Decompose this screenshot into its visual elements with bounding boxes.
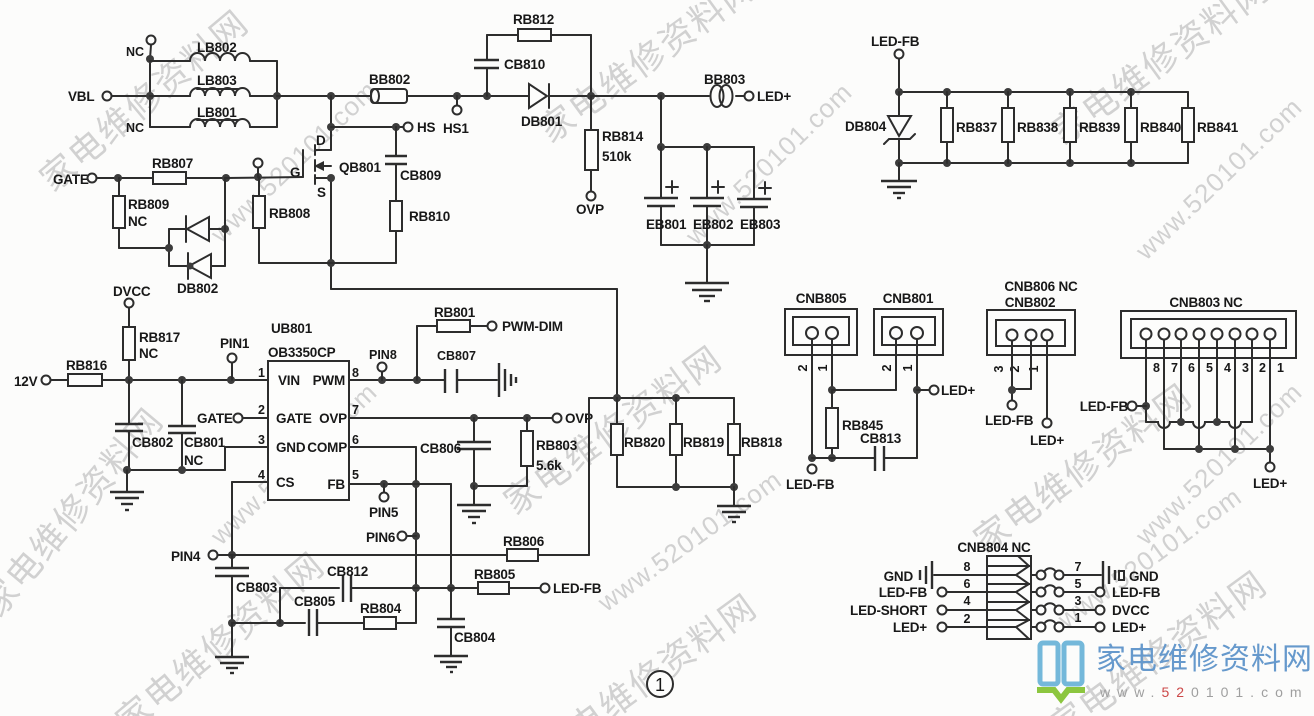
svg-text:S: S <box>317 185 326 200</box>
svg-text:8: 8 <box>1153 361 1160 375</box>
svg-text:NC: NC <box>126 121 144 135</box>
svg-text:CB801: CB801 <box>184 435 226 450</box>
svg-text:PIN6: PIN6 <box>366 530 396 545</box>
svg-text:LED-FB: LED-FB <box>553 581 602 596</box>
resistor RB814 510k <box>585 96 644 192</box>
wire CNB803 even pins <box>1181 340 1252 422</box>
testpoint PIN6 <box>366 530 416 545</box>
svg-text:5: 5 <box>1075 577 1082 591</box>
svg-text:CB802: CB802 <box>132 435 173 450</box>
svg-text:2: 2 <box>258 403 265 417</box>
svg-text:LED+: LED+ <box>1112 620 1146 635</box>
svg-text:CNB804 NC: CNB804 NC <box>957 540 1031 555</box>
svg-text:FB: FB <box>327 477 345 492</box>
resistor RB820 <box>589 394 734 487</box>
resistor RB841 <box>1182 92 1239 163</box>
inductor LB801 <box>150 105 277 127</box>
svg-text:RB814: RB814 <box>602 129 644 144</box>
svg-text:RB807: RB807 <box>152 156 193 171</box>
svg-text:CB810: CB810 <box>504 57 545 72</box>
capacitor CB802 <box>115 380 173 470</box>
terminal DVCC <box>113 284 151 327</box>
svg-text:3: 3 <box>258 433 265 447</box>
svg-text:www.520101.com: www.520101.com <box>1099 684 1309 700</box>
svg-text:5: 5 <box>1206 361 1213 375</box>
inductor LB803 <box>150 73 277 96</box>
svg-text:3: 3 <box>1075 594 1082 608</box>
terminal 12V <box>14 374 68 389</box>
testpoint PIN1 <box>220 336 250 380</box>
svg-text:RB820: RB820 <box>624 435 665 450</box>
IC UB801 OB3350CP <box>258 321 359 500</box>
svg-text:3: 3 <box>992 365 1006 372</box>
wire CS pin4 <box>228 482 268 559</box>
svg-text:CNB802: CNB802 <box>1005 295 1056 310</box>
terminal LED-SHORT row4 <box>850 594 987 618</box>
svg-text:OVP: OVP <box>319 411 347 426</box>
svg-text:PIN5: PIN5 <box>369 505 399 520</box>
svg-text:COMP: COMP <box>307 440 347 455</box>
svg-text:CB807: CB807 <box>437 349 476 363</box>
wire BB802 to DB801 <box>407 92 529 100</box>
svg-text:5.6k: 5.6k <box>536 458 562 473</box>
terminal GATE pin2 <box>197 411 268 426</box>
svg-text:CNB803 NC: CNB803 NC <box>1169 295 1243 310</box>
svg-text:6: 6 <box>352 433 359 447</box>
capacitor CB806 <box>420 418 491 486</box>
svg-text:RB806: RB806 <box>503 534 545 549</box>
wire main to BB802 <box>277 92 371 100</box>
connector CNB804 <box>957 540 1031 639</box>
resistor RB801 <box>417 305 488 380</box>
svg-text:RB812: RB812 <box>513 12 554 27</box>
wire CNB803 rail2 <box>1164 445 1274 453</box>
svg-text:RB804: RB804 <box>360 601 402 616</box>
svg-text:GND: GND <box>276 440 306 455</box>
ground G1 <box>110 470 144 510</box>
svg-text:1: 1 <box>1075 611 1082 625</box>
terminal LED+ row2 <box>893 612 987 635</box>
wire CNB805 to CNB801 <box>832 389 896 391</box>
svg-text:QB801: QB801 <box>339 160 381 175</box>
svg-text:CB812: CB812 <box>327 564 368 579</box>
bead BB803 <box>704 72 746 107</box>
svg-text:VIN: VIN <box>278 373 300 388</box>
wire gate to mosfet <box>226 173 303 181</box>
svg-text:HS: HS <box>417 120 436 135</box>
resistor RB819 <box>670 398 724 487</box>
testpoint gate <box>254 159 263 178</box>
wire CNB803 pin8 <box>1142 340 1150 422</box>
wire LED string top rail <box>895 88 1188 96</box>
ground G5 <box>717 487 751 522</box>
svg-text:2: 2 <box>1259 361 1266 375</box>
svg-text:RB817: RB817 <box>139 330 180 345</box>
svg-text:6: 6 <box>964 577 971 591</box>
svg-text:LED+: LED+ <box>1030 433 1064 448</box>
ground rotated CB807 <box>499 363 516 397</box>
label NC lower <box>126 121 144 135</box>
svg-text:LED-FB: LED-FB <box>985 413 1034 428</box>
svg-text:LED-FB: LED-FB <box>879 585 928 600</box>
svg-text:EB803: EB803 <box>740 217 781 232</box>
terminal LED+ conn2 <box>1030 341 1064 448</box>
svg-text:CB803: CB803 <box>236 580 278 595</box>
capacitor CB809 <box>385 127 441 201</box>
svg-text:4: 4 <box>964 594 971 608</box>
svg-text:RB819: RB819 <box>683 435 724 450</box>
connector CNB803 <box>1121 295 1296 375</box>
svg-text:NC: NC <box>139 346 159 361</box>
svg-text:5: 5 <box>352 468 359 482</box>
wire PWM pin8 <box>349 376 445 384</box>
svg-text:RB841: RB841 <box>1197 120 1239 135</box>
wire 12V rail <box>102 376 268 384</box>
capacitor CB801 <box>168 380 226 470</box>
svg-text:7: 7 <box>1171 361 1178 375</box>
ground G4 <box>457 486 491 523</box>
svg-text:CNB805: CNB805 <box>796 291 847 306</box>
capacitor EB802 <box>690 147 733 245</box>
terminal LED-FB right <box>871 34 920 92</box>
svg-text:RB838: RB838 <box>1017 120 1059 135</box>
svg-text:LED+: LED+ <box>941 383 975 398</box>
svg-text:1: 1 <box>816 364 830 371</box>
resistor RB838 <box>1002 92 1059 163</box>
resistor RB810 <box>390 201 450 263</box>
resistor RB803 5.6k <box>470 418 578 490</box>
svg-text:2: 2 <box>1008 365 1022 372</box>
svg-text:CNB806 NC: CNB806 NC <box>1004 279 1078 294</box>
terminal LED+ conn1 <box>917 383 975 398</box>
terminal LED+ conn3 <box>1253 463 1287 492</box>
svg-text:RB809: RB809 <box>128 197 169 212</box>
svg-text:CNB801: CNB801 <box>883 291 934 306</box>
svg-text:家电维修资料网: 家电维修资料网 <box>1096 643 1313 676</box>
diode DB804 <box>845 92 915 163</box>
svg-text:CB804: CB804 <box>454 630 496 645</box>
resistor RB808 <box>253 177 331 263</box>
testpoint PIN4 <box>171 549 232 564</box>
resistor RB817 <box>123 327 180 380</box>
testpoint PIN5 <box>369 484 399 520</box>
svg-text:1: 1 <box>1027 365 1041 372</box>
contact pair row7 <box>1031 560 1101 580</box>
ground G3 <box>434 656 468 672</box>
terminal NC top <box>126 36 156 60</box>
resistor RB840 <box>1125 92 1181 163</box>
contact pair row5 <box>1031 577 1161 600</box>
logo book icon <box>1037 643 1085 699</box>
resistor RB812 <box>487 12 591 96</box>
wire sense bottom rail <box>617 483 738 491</box>
svg-text:PIN1: PIN1 <box>220 336 250 351</box>
svg-text:BB802: BB802 <box>369 72 410 87</box>
svg-text:510k: 510k <box>602 149 632 164</box>
svg-text:LED+: LED+ <box>757 89 791 104</box>
svg-text:GATE: GATE <box>53 172 89 187</box>
capacitor EB801 <box>644 96 754 245</box>
svg-text:LED-FB: LED-FB <box>871 34 920 49</box>
diode DB802 <box>165 178 229 296</box>
terminal OVP mid <box>553 411 594 426</box>
capacitor CB807 <box>437 349 497 393</box>
svg-text:DB804: DB804 <box>845 119 887 134</box>
svg-text:LED+: LED+ <box>893 620 927 635</box>
svg-text:PWM: PWM <box>313 373 345 388</box>
svg-text:1: 1 <box>1277 361 1284 375</box>
svg-text:LB803: LB803 <box>197 73 237 88</box>
svg-text:GND: GND <box>1129 569 1159 584</box>
svg-text:OVP: OVP <box>576 202 604 217</box>
resistor RB804 <box>360 601 416 629</box>
svg-text:LED+: LED+ <box>1253 476 1287 491</box>
svg-text:DB802: DB802 <box>177 281 218 296</box>
svg-text:CB809: CB809 <box>400 168 441 183</box>
resistor RB816 <box>66 358 108 386</box>
svg-text:1: 1 <box>901 364 915 371</box>
svg-text:2: 2 <box>964 612 971 626</box>
resistor RB845 <box>826 390 884 462</box>
terminal LED-FB conn3 <box>1080 399 1146 414</box>
resistor RB806 <box>503 398 589 561</box>
terminal LED-FB row6 <box>879 577 987 600</box>
svg-text:PWM-DIM: PWM-DIM <box>502 319 563 334</box>
wire OVP pin7 <box>349 414 553 422</box>
svg-text:NC: NC <box>184 453 204 468</box>
capacitor EB803 <box>737 147 781 245</box>
svg-text:D: D <box>316 133 326 148</box>
svg-text:RB816: RB816 <box>66 358 108 373</box>
svg-text:4: 4 <box>258 468 265 482</box>
ground GND right CNB804 <box>1103 561 1159 589</box>
svg-text:CB813: CB813 <box>860 431 902 446</box>
wire COMP pin6 <box>349 447 420 623</box>
svg-text:6: 6 <box>1188 361 1195 375</box>
ground G2 <box>215 623 249 673</box>
resistor RB807 <box>152 156 230 184</box>
capacitor CB803 <box>215 555 278 627</box>
transistor QB801 <box>290 133 381 200</box>
terminal OVP top <box>576 192 604 218</box>
wire FB pin5 <box>349 480 455 592</box>
svg-text:VBL: VBL <box>68 89 94 104</box>
svg-text:EB802: EB802 <box>693 217 733 232</box>
terminal PWM-DIM <box>488 319 563 334</box>
svg-text:PIN8: PIN8 <box>369 348 397 362</box>
svg-text:DVCC: DVCC <box>113 284 151 299</box>
wire LED-FB bottom rail <box>808 454 875 462</box>
capacitor CB805 <box>232 594 364 636</box>
wire CNB803 rail1 hops <box>1146 418 1252 428</box>
svg-text:RB803: RB803 <box>536 438 578 453</box>
svg-text:RB808: RB808 <box>269 206 311 221</box>
testpoint HS1 <box>443 96 469 136</box>
ground G7 <box>881 163 917 198</box>
svg-text:8: 8 <box>352 366 359 380</box>
svg-text:UB801: UB801 <box>271 321 313 336</box>
svg-text:RB839: RB839 <box>1079 120 1120 135</box>
svg-text:4: 4 <box>1224 361 1231 375</box>
svg-text:RB810: RB810 <box>409 209 450 224</box>
svg-text:HS1: HS1 <box>443 121 469 136</box>
svg-text:CB806: CB806 <box>420 441 462 456</box>
svg-text:RB818: RB818 <box>741 435 783 450</box>
ground G6 <box>685 283 729 301</box>
resistor RB837 <box>941 92 997 163</box>
svg-text:RB837: RB837 <box>956 120 997 135</box>
testpoint PIN8 <box>369 348 397 380</box>
terminal LED-FB conn <box>786 465 835 493</box>
svg-text:GND: GND <box>884 569 914 584</box>
wire left bus <box>146 55 154 127</box>
contact pair row1 <box>1031 611 1146 635</box>
inductor LB802 <box>150 40 277 61</box>
connector CNB802 CNB806 <box>987 279 1078 400</box>
terminal LED-FB mid <box>541 581 602 596</box>
connector CNB801 <box>874 291 943 458</box>
wire FB node to RB805 <box>416 587 451 589</box>
svg-text:EB801: EB801 <box>646 217 687 232</box>
svg-text:1: 1 <box>655 675 665 695</box>
svg-text:12V: 12V <box>14 374 38 389</box>
terminal VBL <box>68 89 150 104</box>
terminal LED+ top <box>745 89 792 104</box>
svg-text:1: 1 <box>258 366 265 380</box>
svg-text:CB805: CB805 <box>294 594 336 609</box>
contact pair row3 <box>1031 594 1150 618</box>
label circled 1 <box>647 671 673 697</box>
svg-text:NC: NC <box>128 214 148 229</box>
svg-text:LB801: LB801 <box>197 105 237 120</box>
svg-text:LED-FB: LED-FB <box>1112 585 1161 600</box>
wire PIN4 rail <box>232 554 507 556</box>
bead BB802 <box>369 72 410 103</box>
resistor RB818 <box>728 398 783 487</box>
svg-text:3: 3 <box>1242 361 1249 375</box>
svg-text:LED-FB: LED-FB <box>1080 399 1129 414</box>
capacitor CB810 <box>474 35 545 96</box>
capacitor CB804 <box>437 588 496 655</box>
svg-text:2: 2 <box>796 364 810 371</box>
svg-text:7: 7 <box>1075 560 1082 574</box>
capacitor CB813 <box>860 431 917 471</box>
svg-text:DB801: DB801 <box>521 114 563 129</box>
terminal LED-FB conn2 <box>985 401 1034 429</box>
logo site name <box>1096 643 1313 676</box>
svg-text:7: 7 <box>352 403 359 417</box>
svg-text:8: 8 <box>964 560 971 574</box>
terminal GATE <box>53 172 153 187</box>
wire CNB803 odd pins <box>1164 340 1270 463</box>
wire source rail <box>327 174 617 398</box>
svg-text:2: 2 <box>880 364 894 371</box>
svg-text:LED-FB: LED-FB <box>786 477 835 492</box>
svg-text:LB802: LB802 <box>197 40 237 55</box>
resistor RB809 <box>113 178 169 248</box>
logo url <box>1099 684 1309 700</box>
wire LED string bottom rail <box>895 159 1188 167</box>
svg-text:PIN4: PIN4 <box>171 549 201 564</box>
resistor RB839 <box>1064 92 1120 163</box>
wire EB bottom rail <box>661 241 754 282</box>
svg-text:OB3350CP: OB3350CP <box>268 345 336 360</box>
capacitor CB812 <box>280 564 416 623</box>
wire gnd rail to pin3 <box>123 447 268 474</box>
svg-text:GATE: GATE <box>276 411 312 426</box>
node HS rail <box>327 96 436 150</box>
svg-text:NC: NC <box>126 45 144 59</box>
svg-text:LED-SHORT: LED-SHORT <box>850 603 928 618</box>
wire right bus <box>273 61 281 127</box>
svg-text:CS: CS <box>276 475 295 490</box>
wire boost output <box>587 92 709 100</box>
ground GND left CNB804 <box>884 560 987 589</box>
svg-text:GATE: GATE <box>197 411 233 426</box>
svg-text:RB840: RB840 <box>1140 120 1181 135</box>
svg-text:DVCC: DVCC <box>1112 603 1150 618</box>
resistor RB805 <box>451 567 541 594</box>
svg-text:RB805: RB805 <box>474 567 516 582</box>
svg-text:RB801: RB801 <box>434 305 476 320</box>
connector CNB805 <box>785 291 857 458</box>
diode DB801 <box>521 84 591 129</box>
